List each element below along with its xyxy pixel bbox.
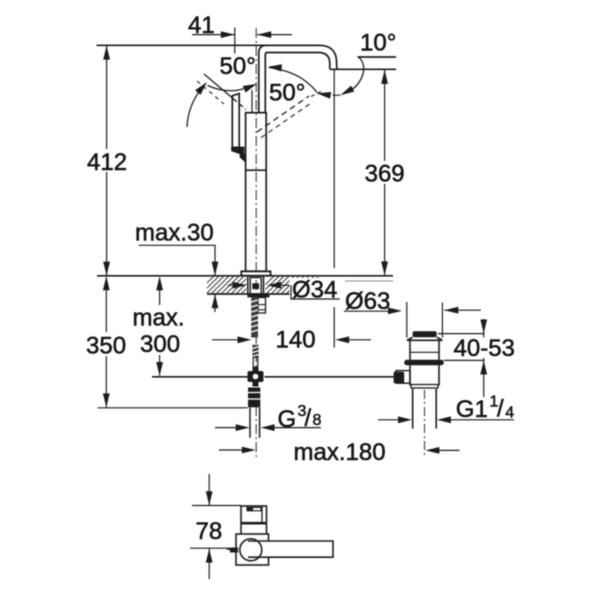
- 350 bottom reference line: [98, 407, 248, 409]
- drain: upper body: [409, 340, 411, 360]
- svg-text:4: 4: [505, 405, 514, 422]
- dim Ø34 arrows: [228, 284, 233, 286]
- dim G1 1/4 arrows: [378, 419, 398, 421]
- svg-text:/: /: [497, 396, 504, 423]
- dim 78 top arrow: [208, 474, 210, 505]
- bottom view: slot: [247, 507, 261, 510]
- dim 40-53 reference lines: [438, 333, 485, 335]
- rotation arc A (50 deg left): [187, 84, 206, 128]
- svg-text:max.180: max.180: [294, 439, 386, 466]
- drain: lower body: [409, 365, 411, 385]
- svg-text:10°: 10°: [360, 30, 396, 57]
- dim 40-53 line: [483, 319, 485, 397]
- lever base wedge: [232, 148, 244, 155]
- drain: tailpipe: [412, 389, 414, 429]
- spout outlet extension line down: [333, 69, 335, 268]
- svg-text:50°: 50°: [220, 53, 256, 80]
- svg-text:412: 412: [87, 149, 127, 176]
- bottom view: lever bar: [248, 541, 333, 557]
- lever blade (neutral): [232, 94, 239, 148]
- svg-text:Ø34: Ø34: [292, 277, 337, 304]
- drain: seat rings: [411, 385, 438, 389]
- threaded shank in hole: [250, 278, 261, 295]
- rotation arc B (50 deg right): [269, 68, 317, 93]
- dim max300 line: [159, 278, 161, 376]
- bottom view: lower housing rect: [236, 534, 269, 565]
- dim Ø34 leader to label: [291, 285, 340, 299]
- top reference line (412 datum): [97, 44, 321, 46]
- centerline of faucet (dash-dot): [255, 28, 257, 458]
- dim 369 line: [384, 70, 386, 276]
- 10 deg arc: [352, 57, 364, 90]
- bottom view: inner edge line: [261, 506, 263, 523]
- dim max.30 lower arrow: [214, 294, 216, 312]
- svg-text:8: 8: [313, 412, 322, 429]
- svg-text:max.: max.: [133, 305, 185, 332]
- dim G3/8 arrows: [215, 427, 236, 429]
- drain centerline: [424, 390, 426, 458]
- spout outer profile: [259, 45, 337, 112]
- dim Ø34 label background: [290, 278, 341, 299]
- body divider line: [246, 169, 267, 171]
- dashed lever position B (rotated up-right): [257, 96, 309, 132]
- dim 41 right arrow: [257, 34, 292, 36]
- svg-text:350: 350: [86, 333, 126, 360]
- dim 412 line: [106, 45, 108, 275]
- bottom view: set screw stub: [227, 548, 237, 550]
- threaded rod upper: [251, 297, 258, 337]
- under-counter lock nut: [247, 294, 269, 298]
- svg-text:G1: G1: [456, 396, 488, 423]
- dim 78 bottom ref line: [190, 547, 230, 549]
- bottom view: thick divider: [241, 522, 267, 525]
- svg-text:369: 369: [365, 161, 405, 188]
- dim max.30 leader: [139, 245, 215, 275]
- dim 41 extension line (lever center): [234, 28, 236, 54]
- spout outlet end line + 369 datum line: [330, 68, 396, 70]
- bottom view: upper housing rect: [241, 506, 267, 523]
- dim Ø63 underline + right-pointing arrow: [344, 310, 390, 312]
- drain: plug flare: [407, 337, 442, 340]
- dim 78 top ref line: [192, 505, 241, 507]
- faucet body: [246, 113, 267, 272]
- supply pipe G3/8: [249, 408, 251, 438]
- svg-text:50°: 50°: [269, 80, 305, 107]
- pull rod right segment: [265, 376, 394, 378]
- dashed lever position A (rotated up-left): [204, 74, 233, 99]
- dim max.180 arrows: [219, 449, 242, 451]
- cross fitting pivot: [253, 367, 259, 372]
- spout inner profile: [265, 53, 330, 113]
- svg-text:140: 140: [276, 327, 316, 354]
- thin tail line between arrowheads: [333, 94, 341, 96]
- lever hub dark bit: [241, 152, 246, 161]
- threaded rod lower: [252, 345, 258, 358]
- rod plain section: [253, 357, 258, 367]
- svg-text:40-53: 40-53: [454, 335, 515, 362]
- counter top line: [97, 275, 393, 277]
- hose connector nut: [248, 388, 260, 408]
- counter bottom line: [207, 293, 318, 295]
- 10 deg upper line: [358, 56, 397, 58]
- svg-text:/: /: [305, 405, 312, 432]
- pull rod (horizontal) left segment: [152, 376, 248, 378]
- dim Ø63 right arrow: [444, 309, 481, 311]
- bottom view: pivot circle: [240, 539, 262, 561]
- svg-text:G: G: [278, 406, 297, 433]
- dim 140 arrows: [212, 339, 238, 341]
- base plate: [241, 271, 270, 275]
- svg-text:300: 300: [140, 331, 180, 358]
- counter hatching: [196, 276, 329, 294]
- Ø63 extension lines: [406, 302, 408, 338]
- rotation arc A right half to riser: [208, 86, 244, 91]
- svg-text:78: 78: [196, 518, 223, 545]
- drain: side port: [396, 371, 410, 384]
- svg-text:max.30: max.30: [135, 220, 214, 247]
- mounting shank through counter: [247, 276, 249, 294]
- drain: flange: [404, 360, 443, 365]
- drain: top plug rim: [413, 331, 437, 337]
- dim 78 bottom arrow: [208, 549, 210, 579]
- shank adapter block: [258, 298, 266, 314]
- riser auxiliary line: [251, 90, 253, 113]
- dim 350 line: [105, 278, 107, 408]
- drain: side port nut: [394, 372, 405, 383]
- bottom view: mid section: [240, 524, 242, 534]
- dim 41 left arrow: [192, 34, 235, 36]
- counter top ghost line right: [345, 280, 393, 282]
